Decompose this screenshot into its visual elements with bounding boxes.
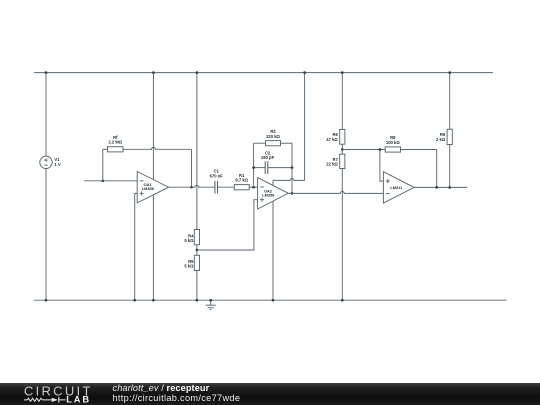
node C2 left junction (252, 166, 255, 169)
wire OA2 V+ supply to top rail (273, 73, 305, 186)
wire LM311 output (414, 186, 467, 188)
wire bottom ground rail (34, 299, 507, 301)
svg-text:22 kΩ: 22 kΩ (326, 162, 338, 167)
svg-text:LM358: LM358 (142, 186, 155, 191)
node LM311 non-inverting pickoff (379, 148, 382, 151)
wire C1 to R1 (218, 186, 235, 188)
voltage source V1 (40, 73, 61, 301)
svg-text:2.2 MΩ: 2.2 MΩ (108, 140, 122, 145)
node R8 feedback junction (435, 186, 438, 189)
svg-text:5 kΩ: 5 kΩ (184, 238, 194, 243)
svg-text:1 V: 1 V (54, 162, 60, 167)
wire to LM311 non-inverting input (380, 150, 384, 182)
node R4/R5 divider tap (196, 249, 199, 252)
wire top supply rail (34, 72, 493, 74)
node R6/R7 threshold junction (341, 148, 344, 151)
svg-text:47 kΩ: 47 kΩ (326, 137, 338, 142)
node top rail / V1 junction (45, 71, 48, 74)
wire OA1 output (169, 185, 215, 187)
node C2 right junction (291, 166, 294, 169)
node R1 / OA2 inverting input / feedback junction (252, 186, 255, 189)
resistor R9 2 kOhm (436, 73, 452, 188)
svg-text:LM358: LM358 (262, 193, 275, 198)
wire OA1 inverting input (84, 180, 137, 182)
node Rf to OA1 output junction (190, 186, 193, 189)
node Rf / OA1 inverting input junction (101, 179, 104, 182)
resistor R6 47 kOhm (326, 73, 345, 150)
svg-text:2 kΩ: 2 kΩ (436, 137, 446, 142)
resistor R8 100 kOhm feedback (385, 135, 437, 187)
svg-text:LAB: LAB (66, 394, 91, 404)
wire feedback to OA2 output junction (291, 168, 293, 194)
CircuitLab footer bar (0, 383, 540, 405)
capacitor C2 150 pF feedback (254, 151, 292, 174)
resistor R4 5 kOhm (184, 73, 199, 250)
svg-text:220 kΩ: 220 kΩ (266, 134, 280, 139)
resistor R1 9.7 kOhm (234, 173, 257, 190)
resistor R7 22 kOhm (326, 150, 345, 301)
op-amp OA2 LM358 (258, 178, 289, 209)
wire OA2 output to LM311 inverting input (288, 191, 383, 193)
node bottom rail / V1 junction (45, 299, 48, 302)
wire OA2 V- supply to bottom rail (272, 201, 274, 300)
capacitor C1 670 nF (210, 169, 224, 194)
resistor R2 220 kOhm feedback (254, 129, 292, 187)
svg-text:LM311: LM311 (390, 185, 403, 190)
op-amp OA1 LM358 (137, 172, 169, 203)
CircuitLab logo (0, 384, 100, 405)
svg-text:150 pF: 150 pF (261, 155, 275, 160)
svg-text:9.7 kΩ: 9.7 kΩ (235, 178, 248, 183)
comparator U1 LM311 (383, 172, 414, 203)
svg-text:5 kΩ: 5 kΩ (184, 264, 194, 269)
wire OA1 non-inverting input to bottom rail (135, 193, 138, 300)
node R9 junction (448, 186, 451, 189)
resistor R5 5 kOhm (184, 250, 199, 300)
wire divider tap to OA2 non-inverting input (197, 200, 258, 250)
resistor Rf 2.2 MOhm feedback (103, 135, 192, 187)
svg-text:670 nF: 670 nF (210, 173, 224, 178)
ground (206, 300, 216, 310)
wire OA1 V- supply to bottom rail (152, 195, 154, 301)
svg-text:100 kΩ: 100 kΩ (386, 140, 400, 145)
wire OA1 V+ supply to top rail (152, 73, 154, 180)
wire threshold node to R8 (342, 149, 385, 151)
